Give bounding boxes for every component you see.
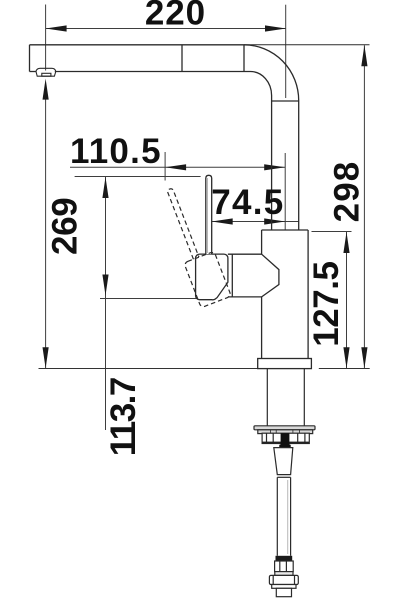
svg-text:74.5: 74.5	[211, 183, 284, 222]
svg-text:110.5: 110.5	[70, 132, 162, 171]
svg-text:127.5: 127.5	[307, 261, 346, 346]
svg-text:269: 269	[45, 198, 84, 255]
svg-text:220: 220	[145, 0, 206, 32]
svg-text:113.7: 113.7	[104, 378, 143, 456]
svg-text:298: 298	[328, 161, 367, 223]
